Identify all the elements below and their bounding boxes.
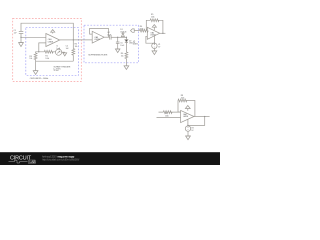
wire: bottom hysteresis rail xyxy=(36,60,74,62)
wire: OA2 output xyxy=(160,32,166,34)
svg-text:LM358: LM358 xyxy=(150,34,155,36)
wire: OA4 output xyxy=(194,116,210,118)
svg-text:100k: 100k xyxy=(45,58,49,60)
wire: OA1 plus input jog xyxy=(39,43,46,52)
svg-text:LM358: LM358 xyxy=(48,41,53,43)
resistor R4 (stage2 input) xyxy=(139,29,148,32)
svg-text:10k: 10k xyxy=(29,58,32,60)
svg-text:100k: 100k xyxy=(165,115,169,117)
oscillator enclosure (red dashed annotation box) xyxy=(13,18,82,81)
svg-text:1uF: 1uF xyxy=(14,33,18,35)
svg-text:1uF: 1uF xyxy=(66,48,70,50)
svg-text:LM358: LM358 xyxy=(94,39,99,41)
svg-text:http://circuitlab.com/c/u89m/c: http://circuitlab.com/c/u89m/c86d369/ xyxy=(42,159,79,162)
op-amp OA2 xyxy=(147,27,159,39)
wire: interstage (OA1 out to OA3 plus) xyxy=(73,39,92,41)
wire: C4 to D2 node xyxy=(111,36,126,38)
capacitor C1 (left column) xyxy=(19,31,24,42)
svg-text:-4.30V: -4.30V xyxy=(133,44,139,46)
svg-text:1N4148: 1N4148 xyxy=(120,31,126,33)
ground (under C5) xyxy=(115,49,120,53)
wire: OA1 inverting input xyxy=(21,36,46,38)
junction nodes xyxy=(20,33,205,126)
resistor R3 (vertical, left bottom) xyxy=(34,52,39,71)
wire: I1 to ground xyxy=(62,51,65,53)
suppress filter enclosure (blue dashed annotation box) xyxy=(84,25,139,63)
component labels (tiny) xyxy=(14,14,195,132)
op-amp OA4 xyxy=(181,110,194,122)
resistor R2 (vertical, output column) xyxy=(72,40,75,61)
ground (under R3) xyxy=(33,71,38,75)
ground (right of I1) xyxy=(63,53,67,56)
wire: OA2 V- pin stub xyxy=(153,36,155,43)
op-amp OA1 xyxy=(46,34,60,47)
wire+resistor R8: OA4 feedback xyxy=(178,99,195,116)
net flag (points left, input of stage 2) xyxy=(131,29,140,32)
voltage source V1 xyxy=(152,43,157,51)
schmitt trigger enclosure (blue dashed annotation box) xyxy=(26,28,79,76)
capacitor C5 (shunt to ground) xyxy=(116,37,120,49)
svg-text:5V: 5V xyxy=(191,130,194,132)
diode D2 (pointing down, series) xyxy=(125,37,128,52)
resistor R7 (stage3 input) + wire xyxy=(159,111,181,114)
capacitor C4 (series coupling) xyxy=(110,35,111,40)
power flag (OA2 V+) xyxy=(152,25,156,31)
ground (under C1) xyxy=(19,43,24,47)
resistor R6 (vertical, under D2) xyxy=(125,52,128,66)
voltage source V3 xyxy=(185,126,190,136)
svg-text:LM358: LM358 xyxy=(183,116,188,118)
svg-text:201k: 201k xyxy=(151,17,155,19)
circuitlab logo xyxy=(9,156,37,164)
power flag (OA4 V+) xyxy=(185,106,190,111)
svg-text:LAB: LAB xyxy=(30,160,37,164)
current source I1 xyxy=(56,49,62,55)
svg-text:100k: 100k xyxy=(181,98,185,100)
wire: OA3 unity feedback xyxy=(90,28,109,37)
svg-text:100k: 100k xyxy=(140,28,144,30)
ground (under V3) xyxy=(186,136,191,140)
ground (under V1) xyxy=(152,51,157,55)
svg-text:5V out: 5V out xyxy=(54,69,59,72)
watermark bar xyxy=(0,152,220,165)
resistor R1 (horizontal) xyxy=(39,50,56,53)
svg-text:SUPPRESSED FILTER: SUPPRESSED FILTER xyxy=(88,55,108,57)
svg-text:10k: 10k xyxy=(121,56,124,58)
op-amp OA3 xyxy=(92,31,104,43)
wire: OA1 output xyxy=(60,39,74,41)
svg-text:5V: 5V xyxy=(158,46,161,48)
wire: OA4 V- pin and lower return xyxy=(187,119,189,126)
wire: OA3 output xyxy=(104,36,110,38)
wire: OA2 plus input jog down to V1 xyxy=(146,36,155,43)
wire: stage3 plus input xyxy=(157,117,181,119)
svg-text:10k: 10k xyxy=(75,46,78,48)
wire+resistor R5: OA2 feedback xyxy=(146,19,163,33)
wire: top feedback rail of oscillator xyxy=(21,23,73,40)
diode D1 (pointing up, above node) xyxy=(121,33,124,37)
svg-text:10uF: 10uF xyxy=(120,45,125,47)
power flag (OA1 V+) xyxy=(51,30,55,34)
ground (under R6) xyxy=(124,66,129,70)
svg-text:OSCILLATOR + 100Hz: OSCILLATOR + 100Hz xyxy=(30,77,49,80)
